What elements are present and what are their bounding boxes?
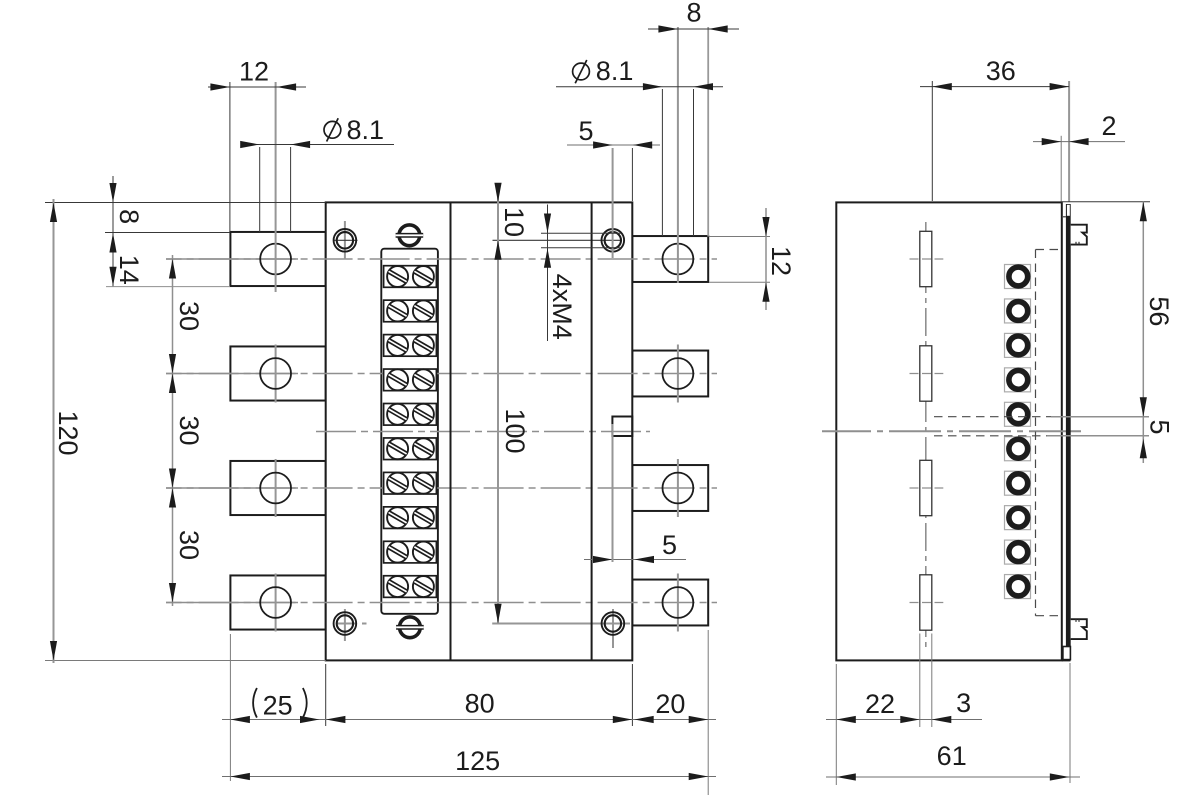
svg-text:100: 100 bbox=[500, 408, 530, 453]
svg-text:25: 25 bbox=[263, 691, 293, 721]
svg-text:12: 12 bbox=[239, 56, 269, 86]
svg-text:125: 125 bbox=[455, 746, 500, 776]
svg-text:3: 3 bbox=[956, 688, 971, 718]
svg-text:8: 8 bbox=[686, 0, 701, 27]
svg-text:30: 30 bbox=[174, 415, 204, 445]
svg-text:8.1: 8.1 bbox=[347, 115, 385, 145]
svg-text:80: 80 bbox=[465, 689, 495, 719]
svg-text:56: 56 bbox=[1144, 296, 1174, 326]
svg-text:4xM4: 4xM4 bbox=[547, 274, 577, 340]
svg-text:30: 30 bbox=[174, 530, 204, 560]
svg-text:14: 14 bbox=[114, 255, 144, 285]
svg-text:2: 2 bbox=[1101, 111, 1116, 141]
svg-text:22: 22 bbox=[865, 689, 895, 719]
svg-text:10: 10 bbox=[499, 207, 529, 237]
svg-text:61: 61 bbox=[937, 741, 967, 771]
svg-text:5: 5 bbox=[1145, 419, 1175, 434]
svg-text:5: 5 bbox=[662, 530, 677, 560]
svg-text:30: 30 bbox=[174, 301, 204, 331]
svg-text:36: 36 bbox=[986, 56, 1016, 86]
svg-text:120: 120 bbox=[53, 410, 83, 455]
svg-text:8: 8 bbox=[114, 209, 144, 224]
svg-text:5: 5 bbox=[578, 116, 593, 146]
svg-text:12: 12 bbox=[766, 246, 796, 276]
svg-text:8.1: 8.1 bbox=[596, 56, 634, 86]
svg-text:20: 20 bbox=[655, 689, 685, 719]
